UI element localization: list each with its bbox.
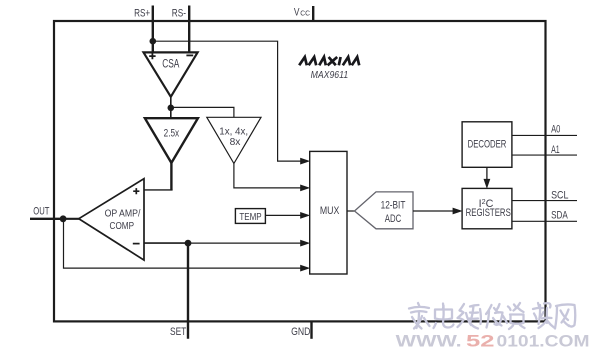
svg-text:52: 52 xyxy=(466,333,495,351)
svg-text:WWW.: WWW. xyxy=(396,333,462,351)
wire OUT feedback to MUX input 5 xyxy=(64,219,311,272)
adc 12-BIT ADC xyxy=(355,192,414,229)
svg-text:A1: A1 xyxy=(551,144,560,156)
pin RS- xyxy=(172,6,189,53)
wire MUX to ADC xyxy=(347,210,355,212)
node SET junction xyxy=(185,240,192,247)
svg-text:0101.COM: 0101.COM xyxy=(497,333,590,351)
svg-text:A0: A0 xyxy=(551,123,560,135)
wire decoder to I2C registers xyxy=(484,167,491,189)
node CSA output junction xyxy=(168,105,175,112)
svg-text:8x: 8x xyxy=(230,137,241,148)
pin A0 xyxy=(512,123,577,135)
wire RS+ node to MUX input 1 xyxy=(153,41,310,164)
pin GND xyxy=(291,321,311,339)
pin SET xyxy=(170,243,188,339)
svg-text:COMP: COMP xyxy=(110,221,135,232)
wire 2.5x output to op-amp + input xyxy=(144,163,173,190)
wire ADC to I2C registers xyxy=(413,208,463,215)
wire CSA node to 1x/4x/8x amplifier xyxy=(171,107,234,117)
multiplexer MUX xyxy=(310,151,347,274)
wire 1x/4x/8x output to MUX input 2 xyxy=(234,164,310,192)
svg-text:MUX: MUX xyxy=(320,205,340,217)
svg-text:MAX9611: MAX9611 xyxy=(311,70,349,81)
node OUT junction xyxy=(60,215,67,222)
svg-text:REGISTERS: REGISTERS xyxy=(466,207,511,219)
svg-text:SET: SET xyxy=(170,326,187,338)
pin A1 xyxy=(512,144,577,156)
pin SDA xyxy=(512,209,577,221)
svg-text:TEMP: TEMP xyxy=(239,211,261,223)
pin RS+ xyxy=(134,6,153,53)
part number MAX9611 xyxy=(311,70,349,81)
svg-text:12-BIT: 12-BIT xyxy=(381,199,406,211)
svg-text:OP AMP/: OP AMP/ xyxy=(105,209,141,220)
wire CSA output xyxy=(170,97,172,118)
op-amp OP AMP/COMP xyxy=(79,179,144,260)
decoder block xyxy=(462,122,512,168)
pin VCC xyxy=(294,6,313,22)
svg-text:SDA: SDA xyxy=(551,209,568,221)
watermark url WWW.520101.COM xyxy=(396,333,590,351)
pin OUT xyxy=(30,205,63,219)
svg-text:ADC: ADC xyxy=(385,213,402,225)
wire OUT node to op-amp input xyxy=(63,218,80,220)
wire op-amp minus input to MUX input 4 xyxy=(144,240,310,247)
svg-text:1x, 4x,: 1x, 4x, xyxy=(219,126,248,137)
svg-text:SCL: SCL xyxy=(551,190,568,202)
svg-text:OUT: OUT xyxy=(33,205,49,217)
svg-text:RS+: RS+ xyxy=(134,8,150,20)
svg-text:CSA: CSA xyxy=(162,57,179,71)
sensor TEMP block xyxy=(235,209,265,224)
svg-text:RS-: RS- xyxy=(172,8,186,20)
op-amp CSA (current-sense amplifier) xyxy=(144,52,198,96)
svg-text:GND: GND xyxy=(291,326,310,338)
svg-text:DECODER: DECODER xyxy=(468,138,507,150)
wire TEMP to MUX input 3 xyxy=(265,212,310,219)
watermark chinese characters xyxy=(409,303,575,329)
pin SCL xyxy=(512,190,577,202)
svg-text:V: V xyxy=(294,7,300,19)
outer block boundary of MAX9611 xyxy=(54,21,546,321)
amplifier 2.5x xyxy=(145,118,198,163)
amplifier 1x/4x/8x xyxy=(207,117,261,163)
svg-text:CC: CC xyxy=(300,9,310,18)
logo MAXIM xyxy=(299,57,359,65)
svg-text:2.5x: 2.5x xyxy=(164,128,180,140)
node RS+ sense junction xyxy=(150,38,157,45)
i2c registers block xyxy=(462,188,512,228)
